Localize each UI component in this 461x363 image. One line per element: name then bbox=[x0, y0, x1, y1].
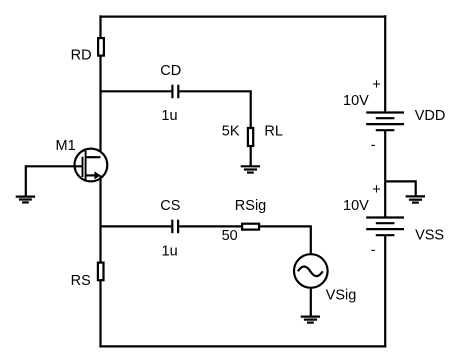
battery VSS bbox=[366, 218, 404, 236]
wire RL to ground bbox=[250, 146, 252, 166]
resistor RD bbox=[98, 38, 104, 56]
svg-text:RS: RS bbox=[71, 273, 91, 289]
wire mid-rail ground tap bbox=[385, 181, 416, 196]
svg-text:CD: CD bbox=[160, 63, 181, 79]
battery VDD bbox=[366, 113, 404, 131]
wire CD to RL corner bbox=[179, 91, 250, 128]
svg-text:-: - bbox=[371, 138, 376, 154]
wire VDD to VSS bbox=[384, 130, 386, 217]
ground (gate) bbox=[16, 197, 35, 203]
wire source lead down through CS junction to RS bbox=[99, 175, 101, 262]
svg-text:VDD: VDD bbox=[415, 108, 446, 124]
ground (RL) bbox=[241, 166, 260, 172]
capacitor CD bbox=[172, 85, 178, 99]
wire top rail bbox=[99, 16, 386, 18]
wire gate down to ground bbox=[25, 165, 27, 196]
resistor RSig bbox=[242, 224, 259, 230]
wire RD bottom to drain lead (through CD junction) bbox=[99, 56, 101, 158]
svg-text:RD: RD bbox=[71, 48, 92, 64]
wire RS to bottom rail bbox=[99, 280, 101, 347]
svg-text:M1: M1 bbox=[56, 138, 76, 154]
ground (mid-rail) bbox=[406, 196, 425, 202]
svg-text:5K: 5K bbox=[222, 123, 240, 139]
svg-text:1u: 1u bbox=[161, 108, 177, 124]
wire CS branch horizontal bbox=[101, 225, 172, 227]
wire VSig to ground bbox=[310, 288, 312, 317]
wire left rail: top to RD bbox=[99, 15, 101, 38]
source VSig bbox=[294, 254, 328, 288]
capacitor CS bbox=[172, 220, 178, 234]
svg-text:1u: 1u bbox=[162, 244, 178, 260]
transistor M1 bbox=[75, 149, 108, 182]
ground (VSig) bbox=[301, 317, 320, 323]
wire right rail: top to VDD bbox=[384, 15, 386, 112]
svg-text:CS: CS bbox=[160, 198, 180, 214]
svg-text:10V: 10V bbox=[343, 198, 369, 214]
wire gate lead bbox=[26, 165, 83, 167]
svg-text:RSig: RSig bbox=[235, 198, 266, 214]
wire VSS to bottom rail bbox=[384, 235, 386, 347]
resistor RS bbox=[98, 263, 104, 281]
svg-text:VSig: VSig bbox=[326, 288, 357, 304]
svg-text:10V: 10V bbox=[343, 93, 369, 109]
svg-text:RL: RL bbox=[264, 123, 283, 139]
svg-text:50: 50 bbox=[222, 228, 238, 244]
wire CD branch horizontal bbox=[101, 90, 172, 92]
svg-text:VSS: VSS bbox=[415, 228, 444, 244]
wire RSig to VSig corner bbox=[259, 226, 311, 254]
svg-text:+: + bbox=[372, 182, 380, 198]
svg-text:+: + bbox=[372, 77, 380, 93]
wire CS to RSig bbox=[179, 225, 242, 227]
resistor RL bbox=[248, 128, 253, 146]
wire bottom rail bbox=[99, 345, 386, 347]
svg-text:-: - bbox=[371, 243, 376, 259]
